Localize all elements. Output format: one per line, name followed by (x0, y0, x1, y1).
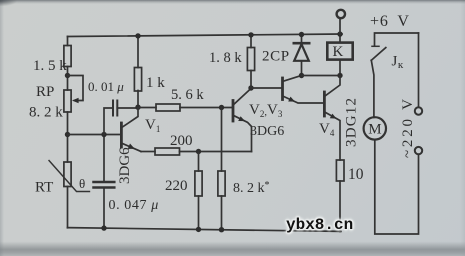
resistor R6 8.2k* leads (221, 108, 223, 230)
svg-text:θ: θ (79, 176, 85, 191)
svg-text:5. 6 k: 5. 6 k (171, 87, 204, 103)
capacitor C1 0.01u leads (104, 108, 138, 135)
svg-text:Jк: Jк (392, 54, 404, 72)
transistor V4 emitter lead to 10 resistor (326, 113, 340, 161)
node 1.8k top at +6V rail (248, 32, 253, 37)
transistor V4 collector lead (326, 76, 340, 96)
resistor R5 5.6k body (156, 104, 180, 111)
node relay top at +6V rail (337, 31, 342, 36)
capacitor C2 0.047u plates (94, 182, 115, 188)
node C2 bottom at ground rail (101, 225, 106, 230)
svg-text:RT: RT (35, 180, 53, 196)
wire RP wiper tie to top terminal (68, 76, 84, 101)
transistor V2 collector lead (234, 89, 251, 105)
diode 2CP cathode bar (294, 42, 309, 45)
resistor R3 200 body (155, 148, 180, 155)
wire 10 resistor to ground rail (339, 181, 341, 232)
wire V1 emitter to 200 resistor (141, 151, 155, 153)
svg-text:10: 10 (348, 166, 364, 183)
thermistor RT body (64, 162, 71, 187)
watermark ybx8.cn (286, 216, 353, 234)
svg-text:V1: V1 (145, 117, 160, 134)
wire top +6V rail (68, 34, 343, 37)
resistor R2 1k leads (137, 36, 139, 108)
terminal ~220V lower circle (415, 147, 422, 154)
node V2 collector / 1.8k / V3 base (248, 85, 253, 90)
svg-text:3DG6: 3DG6 (250, 124, 284, 139)
node junction 1.5k/RP top (65, 73, 70, 78)
terminal ~220V upper circle (415, 107, 422, 114)
switch Jk fixed contact tick (372, 45, 379, 47)
resistor R8 10 body (336, 160, 344, 181)
relay K coil box (327, 43, 352, 60)
svg-text:0. 01 μ: 0. 01 μ (88, 79, 124, 94)
svg-text:3DG12: 3DG12 (344, 97, 360, 147)
transistor V1 collector lead (123, 108, 139, 128)
transistor V2 base bar (232, 101, 235, 122)
switch Jk blade (371, 48, 386, 61)
node 220 bottom at ground rail (196, 227, 201, 232)
wire bottom ground rail (68, 228, 342, 232)
node 220 top on emitter bus (196, 149, 201, 154)
transistor V3 base bar (281, 78, 284, 100)
wire V3 base line (251, 87, 281, 89)
resistor R6 8.2k* body (218, 171, 225, 196)
resistor R4 220 leads (198, 152, 200, 230)
node diode bottom / V3 collector (299, 73, 304, 78)
node C2 top at base line (101, 132, 106, 137)
svg-text:V4: V4 (319, 121, 335, 138)
resistor R4 220 body (195, 171, 202, 196)
node relay bottom / V4 collector (337, 73, 342, 78)
wire V1 base line (68, 134, 121, 136)
transistor V1 base bar (120, 123, 123, 147)
svg-text:1 k: 1 k (146, 75, 165, 91)
wire motor bottom loop to 220V terminal (375, 140, 419, 234)
resistor R2 1k body (134, 68, 141, 92)
transistor V3 collector lead (284, 76, 302, 82)
resistor R7 1.8k body (247, 48, 254, 71)
svg-text:1. 5 k: 1. 5 k (33, 58, 67, 74)
svg-text:0. 047 μ: 0. 047 μ (109, 198, 159, 213)
svg-text:200: 200 (170, 133, 193, 149)
transistor V1 emitter lead (123, 144, 142, 152)
node diode top at +6V rail (299, 32, 304, 37)
svg-text:K: K (333, 44, 344, 60)
wire left vertical branch (1.5k/RP/RT chain) (67, 37, 69, 228)
svg-text:~220 V: ~220 V (400, 96, 416, 158)
terminal +6V circle (337, 10, 345, 18)
svg-text:1. 8 k: 1. 8 k (209, 50, 242, 66)
node V1 collector junction (135, 105, 140, 110)
transistor V4 base bar (323, 92, 326, 116)
diode VD 2CP leads (301, 34, 303, 75)
resistor R1 1.5k (64, 46, 71, 67)
transistor V3 emitter lead to V4 base (284, 97, 324, 104)
wire 5.6k to V2 base (180, 107, 232, 109)
wire +6V terminal to rail (339, 18, 341, 34)
node V1 base branch tee on left vertical (65, 132, 70, 137)
node 1k top at +6V rail (135, 33, 140, 38)
wire upper 220V terminal to loop top (418, 33, 420, 107)
diode 2CP triangle (294, 44, 309, 61)
svg-text:8. 2 k: 8. 2 k (29, 105, 63, 121)
svg-text:+6 V: +6 V (370, 13, 410, 30)
transistor V2 emitter arrowhead (238, 116, 245, 121)
svg-text:RP: RP (36, 84, 54, 100)
potentiometer RP 8.2k body (64, 90, 71, 112)
motor M circle (364, 117, 386, 139)
wire V1 collector to 5.6k (138, 107, 156, 109)
svg-text:220: 220 (165, 178, 188, 194)
wire motor loop top (375, 33, 419, 46)
wire switch to motor (371, 60, 374, 117)
RP wiper arrowhead (72, 98, 79, 103)
capacitor C1 0.01u plates (113, 101, 117, 116)
svg-text:V2,V3: V2,V3 (249, 102, 283, 119)
svg-text:M: M (368, 122, 381, 138)
transistor V1 emitter arrowhead (128, 144, 135, 149)
relay K coil leads (339, 34, 341, 76)
svg-text:8. 2 k*: 8. 2 k* (233, 180, 270, 196)
node 8.2k* bottom at ground rail (219, 227, 224, 232)
svg-text:3DG6: 3DG6 (117, 147, 133, 184)
wire diode bottom to relay bottom (302, 75, 341, 77)
resistor R7 1.8k leads (250, 35, 252, 88)
node V2 base / 8.2k* tap (219, 105, 224, 110)
thermistor RT slash and foot (49, 161, 90, 192)
transistor V3 emitter arrowhead (288, 97, 295, 102)
wire emitter bus 200 to V2 emitter (180, 151, 252, 153)
capacitor C2 0.047u leads (103, 135, 105, 229)
transistor V4 emitter arrowhead (330, 114, 337, 119)
transistor V2 emitter lead down to bus (234, 116, 251, 152)
svg-text:2CP: 2CP (262, 49, 290, 65)
